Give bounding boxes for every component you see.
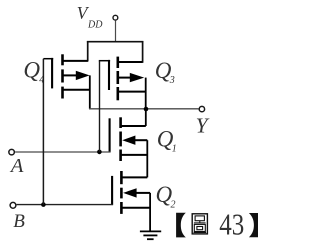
transistor Q4 (PMOS) <box>43 54 89 109</box>
Q4 channel segment top <box>61 54 64 65</box>
Q3 source stub <box>119 91 146 93</box>
svg-text:3: 3 <box>169 75 175 86</box>
ground bar 1 <box>140 230 161 232</box>
Q3 gate bar <box>108 60 110 90</box>
Q2 drain stub <box>122 176 147 178</box>
Q1 channel segment bottom <box>119 150 122 162</box>
Q4 gate lead <box>43 58 53 60</box>
Q3 body stub <box>119 77 132 79</box>
svg-text:B: B <box>13 211 25 232</box>
wire VDD rail right drop to Q3 drain <box>142 41 144 63</box>
Q1 body arrow (points left = NMOS) <box>122 136 135 145</box>
wire Y output line <box>89 108 199 110</box>
label Q4 <box>23 57 44 85</box>
Q3 source/body vertical to Y node <box>145 78 147 110</box>
node A junction dot <box>97 150 102 155</box>
Q3 body arrow (points right = PMOS) <box>130 73 144 82</box>
caption character 圖 <box>192 214 207 234</box>
Q4 drain stub <box>63 60 88 62</box>
label VDD <box>77 3 104 30</box>
Q3 channel segment top <box>117 57 120 68</box>
svg-text:Q: Q <box>23 57 40 82</box>
svg-text:2: 2 <box>171 199 176 210</box>
node Y junction dot <box>144 107 149 112</box>
Q1 source stub <box>121 154 147 156</box>
wire input B line <box>17 204 114 206</box>
Q4 body arrow (points right = PMOS) <box>76 71 90 80</box>
wire A vertical up to Q3 gate <box>99 61 101 152</box>
caption bracket left 【 <box>176 213 186 238</box>
svg-text:1: 1 <box>172 143 177 154</box>
wire input A line <box>15 151 111 153</box>
transistor Q1 (NMOS) <box>110 109 148 177</box>
ground bar 2 <box>143 234 157 236</box>
label Q1 <box>157 127 177 155</box>
svg-text:A: A <box>9 155 24 177</box>
wire B vertical up to Q4 gate <box>42 59 44 205</box>
Q1 drain stub <box>121 125 145 127</box>
transistor Q3 (PMOS) <box>99 57 146 110</box>
svg-text:DD: DD <box>87 19 103 30</box>
Q2 source stub <box>122 207 150 209</box>
Y terminal circle <box>199 106 204 111</box>
caption bracket right 】 <box>249 213 258 237</box>
Q1 drain vertical from Y node <box>145 109 147 126</box>
Q3 channel segment bottom <box>117 87 120 100</box>
Q4 channel segment middle <box>61 69 64 82</box>
svg-text:43: 43 <box>219 208 244 242</box>
wire VDD rail left drop to Q4 drain <box>87 41 89 62</box>
Q3 channel segment middle <box>117 71 120 84</box>
Q2 channel segment bottom <box>120 202 123 214</box>
Q4 source stub <box>63 89 90 91</box>
B terminal circle <box>10 202 16 208</box>
Q1 channel segment middle <box>119 132 122 147</box>
label Q2 <box>156 182 176 210</box>
Q4 source/body vertical to Y <box>89 75 91 108</box>
caption 【圖 43】 <box>176 208 258 242</box>
Q3 drain stub <box>119 61 143 63</box>
Q1 source vertical down to Q2 drain <box>146 140 148 177</box>
ground bar 3 <box>147 238 154 240</box>
node B junction dot <box>41 202 46 207</box>
Q1 gate bar <box>109 118 111 152</box>
Q3 gate lead <box>99 60 110 62</box>
Q2 body arrow (points left = NMOS) <box>123 188 137 197</box>
Q4 body stub <box>63 74 77 76</box>
Q1 body stub <box>134 139 147 141</box>
transistor Q2 (NMOS) <box>112 171 150 231</box>
Q2 source vertical down to ground <box>149 193 151 231</box>
svg-text:Y: Y <box>196 113 210 137</box>
Q2 channel segment middle <box>120 188 123 199</box>
label Q3 <box>155 58 175 86</box>
Q4 channel segment bottom <box>61 87 64 99</box>
Q2 body stub <box>135 192 150 194</box>
ground <box>140 231 161 239</box>
wire VDD rail <box>87 41 143 43</box>
Q2 channel segment top <box>120 171 123 184</box>
Q1 channel segment top <box>119 117 122 128</box>
Q4 gate bar <box>51 58 53 89</box>
VDD terminal circle <box>113 15 118 20</box>
wire VDD terminal drop <box>115 20 117 41</box>
A terminal circle <box>9 149 15 155</box>
Q2 gate bar <box>111 176 113 205</box>
